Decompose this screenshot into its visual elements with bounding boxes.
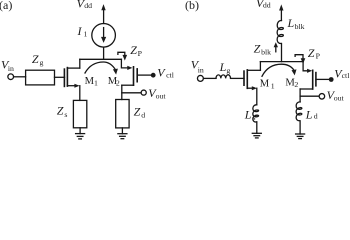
impedance Zd box — [116, 100, 129, 128]
label M2 (b) — [285, 77, 298, 89]
svg-text:Z: Z — [134, 104, 141, 118]
svg-text:Z: Z — [32, 52, 39, 66]
terminal dot Vctl (b) — [329, 77, 334, 82]
wire Vin to Lg — [204, 77, 216, 79]
current source I1 (a) — [92, 24, 116, 48]
transistor M1 (a) — [64, 68, 67, 87]
wire Zg to M1 gate — [55, 76, 65, 78]
ground (a, under Zs) — [76, 134, 85, 139]
label ZP (a) — [130, 43, 142, 58]
label Ld — [305, 108, 318, 122]
svg-text:L: L — [287, 16, 295, 30]
inductor Ld — [296, 102, 302, 121]
label (a) — [0, 0, 12, 12]
svg-text:M: M — [260, 78, 270, 89]
svg-text:ctl: ctl — [342, 71, 350, 80]
svg-text:s: s — [253, 113, 256, 122]
drain-current arrow into M2 (b) — [307, 69, 312, 73]
label Vout (a) — [148, 86, 166, 100]
label Vdd (a) — [77, 0, 92, 10]
node step wire into M2 drain (a) — [121, 59, 127, 68]
svg-text:in: in — [198, 65, 204, 74]
svg-text:L: L — [305, 108, 313, 122]
svg-text:(a): (a) — [0, 0, 12, 12]
node line (a) — [80, 58, 122, 60]
inductor Lg — [216, 75, 231, 78]
wire Lblk to node — [281, 44, 283, 62]
svg-text:Z: Z — [57, 104, 64, 118]
label Zg — [32, 52, 44, 67]
wire Lg to M1 gate — [231, 77, 244, 79]
svg-text:2: 2 — [294, 80, 298, 89]
label I1 — [77, 24, 88, 39]
svg-text:P: P — [138, 49, 143, 58]
node Vin (a) label — [1, 58, 14, 74]
svg-text:dd: dd — [84, 1, 92, 10]
transistor M1 (b) — [244, 70, 247, 88]
wire Vin to Zg — [14, 76, 26, 78]
drain-current arrow into M2 (a) — [127, 66, 132, 70]
label M2 (a) — [108, 76, 120, 88]
label Ls — [244, 108, 256, 122]
label Vctl (a) — [157, 65, 174, 79]
svg-text:2: 2 — [116, 78, 120, 87]
svg-text:d: d — [314, 112, 318, 121]
wire M2 source to Vout tap (b) — [300, 95, 319, 97]
Zblk annotation arrow (b) — [274, 42, 278, 52]
Vdd arrow (b) — [279, 4, 283, 10]
wire Ls to ground — [256, 122, 258, 134]
impedance Zg box — [26, 70, 55, 85]
svg-text:ctl: ctl — [166, 70, 175, 79]
signal-flow arc M1 to M2 (a) — [85, 62, 116, 73]
svg-text:dd: dd — [263, 1, 271, 10]
svg-text:in: in — [8, 64, 14, 73]
label Vdd (b) — [256, 0, 271, 10]
inductor Ls — [253, 105, 259, 122]
wire Ld to ground — [299, 121, 301, 134]
wire M2 source to Vout tap (a) — [122, 92, 141, 94]
svg-text:blk: blk — [295, 22, 305, 31]
label Zd — [134, 104, 146, 119]
transistor M2 (b) — [313, 70, 316, 89]
svg-text:blk: blk — [261, 48, 271, 57]
label ZP (b) — [308, 46, 321, 61]
transistor M2 (a) — [134, 67, 138, 85]
ZP annotation arrow (b) — [295, 55, 305, 64]
label Vout (b) — [327, 88, 345, 103]
label Lblk — [287, 16, 305, 31]
label Vctl (b) — [334, 66, 350, 80]
ground (b, under Ls) — [252, 133, 261, 138]
wire I1 to Vdd arrow — [103, 10, 105, 23]
Vdd arrow (a) — [101, 4, 105, 10]
terminal Vin (b) — [197, 75, 203, 81]
svg-text:s: s — [64, 110, 67, 119]
svg-text:g: g — [40, 58, 44, 67]
ground (a, under Zd) — [118, 134, 127, 139]
svg-text:out: out — [334, 93, 345, 102]
node line (b) — [260, 61, 303, 63]
label Zs — [57, 104, 68, 119]
label (b) — [185, 0, 199, 12]
svg-text:L: L — [244, 108, 252, 122]
terminal Vout (a) — [141, 90, 146, 95]
signal-flow arc M1 to M2 (b) — [262, 64, 294, 76]
wire Zd to ground — [121, 128, 123, 134]
terminal Vout (b) — [319, 94, 325, 100]
svg-text:g: g — [226, 66, 230, 75]
label Lg — [219, 60, 231, 75]
label Zblk — [254, 41, 272, 56]
svg-text:V: V — [157, 65, 166, 79]
ZP annotation arrow (a) — [118, 52, 127, 60]
svg-text:1: 1 — [94, 78, 98, 87]
label M1 (b) — [260, 78, 275, 90]
svg-text:Z: Z — [130, 43, 137, 57]
svg-text:1: 1 — [271, 81, 275, 90]
svg-text:P: P — [316, 52, 321, 61]
svg-text:I: I — [77, 24, 83, 38]
wire Lblk to Vdd arrow — [280, 11, 282, 21]
node Vin (b) label — [191, 58, 204, 75]
node step wire into M2 drain (b) — [303, 62, 307, 71]
impedance Zs box — [73, 100, 86, 127]
label M1 (a) — [85, 76, 98, 88]
svg-text:1: 1 — [84, 30, 88, 39]
ground (b, under Ld) — [296, 134, 305, 139]
svg-text:d: d — [141, 110, 145, 119]
svg-text:out: out — [156, 91, 167, 100]
svg-text:L: L — [219, 60, 227, 74]
svg-text:(b): (b) — [185, 0, 199, 12]
inductor Lblk — [277, 20, 283, 43]
wire I1 to node — [103, 47, 105, 59]
svg-text:Z: Z — [254, 41, 261, 55]
terminal dot Vctl (a) — [151, 73, 156, 78]
svg-text:Z: Z — [308, 46, 315, 60]
wire Zs to ground — [79, 128, 81, 134]
terminal Vin (a) — [8, 74, 14, 80]
